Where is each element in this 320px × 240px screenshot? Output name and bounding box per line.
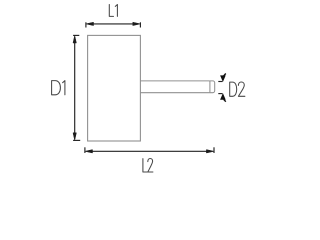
label L2 (143, 159, 153, 173)
dimension L2 (bottom) (85, 147, 214, 172)
label D1 (52, 81, 65, 95)
arrowhead down (73, 133, 76, 141)
tick bottom extension (218, 93, 222, 95)
tick bottom extension (73, 139, 80, 141)
label D2 (230, 82, 245, 96)
shank (shaft) (140, 81, 214, 93)
label L1 (109, 5, 117, 17)
tick right extension (213, 147, 215, 153)
dimension D2 (right, shank diameter) (218, 74, 245, 102)
tick top extension (218, 81, 222, 83)
arrowhead up (bottom) with tail (221, 94, 225, 99)
arrowhead left (86, 22, 94, 25)
arrowhead left (85, 150, 93, 153)
dimension L1 (top) (86, 5, 140, 28)
wire dimension line L2 (92, 150, 207, 152)
arrowhead right (206, 150, 214, 153)
tick left extension (85, 22, 87, 27)
wire dimension line D1 (74, 42, 76, 133)
arrowhead right (133, 22, 141, 25)
tick top extension (73, 34, 79, 36)
tick left extension (84, 147, 86, 153)
wire dimension line L1 (93, 23, 133, 25)
tick right extension (139, 22, 141, 27)
body rectangle (abrasive head) (88, 35, 141, 141)
arrowhead down (top) with tail (221, 76, 225, 81)
dimension D1 (left) (52, 35, 81, 140)
arrowhead up (73, 35, 76, 43)
